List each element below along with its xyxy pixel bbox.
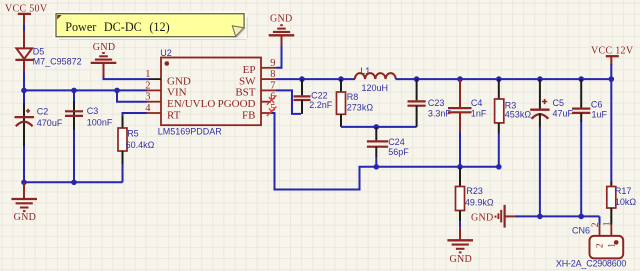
node junction VIN rail / EN branch — [114, 88, 120, 94]
node junction VIN rail / D5 / C2 — [21, 88, 27, 94]
node junction SW / C22 — [299, 76, 305, 82]
node junction GND rail / C2 / ground — [21, 180, 27, 186]
svg-text:RT: RT — [167, 109, 181, 121]
svg-text:BST: BST — [235, 87, 255, 99]
wire GND symbol to U2 pin 1 — [104, 77, 150, 80]
node junction R8/C23 wire with C24 — [374, 124, 380, 130]
svg-text:C24: C24 — [388, 137, 405, 147]
svg-text:1nF: 1nF — [471, 108, 487, 118]
ground symbol bottom-left — [11, 182, 37, 223]
wire VOUT rail L1 to VCC12V corner — [396, 78, 612, 80]
wire output GND rail — [516, 215, 600, 217]
svg-text:7: 7 — [270, 80, 275, 91]
node junction VOUT / C5 — [537, 76, 543, 82]
wire EN/UVLO branch — [117, 90, 147, 101]
U2 pin 8 SW — [239, 69, 276, 87]
svg-text:2: 2 — [596, 243, 606, 248]
wire FB net: pin 5 down, across, up to FB rail — [272, 113, 499, 190]
svg-text:EP: EP — [243, 64, 256, 76]
node junction VOUT / C4 — [457, 76, 463, 82]
svg-text:LM5169PDDAR: LM5169PDDAR — [158, 127, 223, 137]
svg-text:EN/UVLO: EN/UVLO — [167, 98, 215, 110]
svg-text:SW: SW — [239, 75, 256, 87]
svg-text:GND: GND — [14, 212, 37, 223]
resistor R5 60.4k — [118, 113, 155, 182]
capacitor C23 3.3nF — [408, 79, 452, 127]
power port VCC 12V — [591, 45, 634, 65]
svg-text:VIN: VIN — [167, 87, 187, 99]
node junction GND rail / C5 — [537, 214, 543, 220]
U2 pin 4 RT — [145, 103, 180, 121]
svg-text:3.3nF: 3.3nF — [428, 108, 452, 118]
diode D5 — [15, 31, 81, 71]
svg-text:1: 1 — [603, 221, 613, 226]
svg-text:60.4kΩ: 60.4kΩ — [126, 140, 155, 150]
svg-text:470uF: 470uF — [37, 118, 63, 128]
svg-text:U2: U2 — [160, 48, 172, 58]
svg-text:C23: C23 — [428, 98, 445, 108]
svg-text:100nF: 100nF — [87, 117, 113, 127]
wire EP pin to ground — [276, 46, 282, 68]
svg-text:R17: R17 — [615, 186, 632, 196]
svg-text:273kΩ: 273kΩ — [347, 102, 374, 112]
svg-text:GND: GND — [93, 42, 116, 53]
svg-text:47uF: 47uF — [553, 108, 574, 118]
svg-text:C5: C5 — [553, 98, 565, 108]
U2 pin 6 PGOOD with no-ERC cross — [218, 92, 277, 110]
node junction VOUT / R3 — [496, 76, 502, 82]
IC U2 LM5169PDDAR body — [158, 48, 261, 137]
resistor R23 49.9k — [456, 168, 494, 222]
U2 pin 2 VIN — [145, 80, 186, 98]
svg-text:56pF: 56pF — [388, 147, 409, 157]
svg-text:10kΩ: 10kΩ — [615, 197, 637, 207]
svg-text:1uF: 1uF — [592, 109, 608, 119]
node junction FB rail / C24 — [374, 164, 380, 170]
U2 pin 3 EN/UVLO — [145, 92, 215, 110]
svg-text:49.9kΩ: 49.9kΩ — [465, 197, 494, 207]
svg-text:Power DC-DC (12): Power DC-DC (12) — [65, 20, 169, 34]
wire bottom GND rail (left) — [24, 181, 123, 183]
svg-text:VCC 12V: VCC 12V — [591, 45, 634, 56]
ground below R23 — [447, 221, 473, 265]
svg-text:453kΩ: 453kΩ — [505, 110, 532, 120]
node junction VOUT / VCC12V / R17 — [609, 76, 615, 82]
svg-text:9: 9 — [270, 58, 275, 69]
capacitor C3 100nF — [65, 90, 113, 182]
svg-text:GND: GND — [450, 254, 473, 265]
resistor R8 273k — [337, 79, 374, 127]
wire BST pin to C22 bottom — [276, 90, 301, 114]
power port VCC 50V — [5, 3, 48, 24]
wire D5 cathode down to GND rail — [23, 71, 25, 182]
note box "Power DC-DC (12)" — [55, 13, 247, 40]
wire VCC50V to D5 — [23, 24, 25, 31]
capacitor C24 56pF — [367, 127, 409, 167]
capacitor C2 (polarized 470uF) — [15, 103, 63, 146]
svg-text:8: 8 — [270, 69, 275, 80]
wire R8 bottom to C23 bottom — [341, 126, 417, 128]
connector CN6 XH-2A — [556, 221, 626, 268]
inductor L1 120uH — [355, 66, 396, 93]
svg-text:2: 2 — [145, 80, 150, 91]
U2 pin 5 FB with no-ERC cross — [242, 103, 276, 121]
svg-text:GND: GND — [471, 212, 494, 223]
svg-text:1: 1 — [145, 69, 150, 80]
svg-text:R8: R8 — [347, 92, 359, 102]
svg-text:C22: C22 — [311, 90, 328, 100]
node junction SW / R8 — [338, 76, 344, 82]
U2 pin 7 BST — [235, 80, 276, 98]
ground symbol above pin 9 EP — [269, 13, 295, 46]
node junction FB rail / C4 / R23 — [457, 164, 463, 170]
capacitor C4 1nF — [448, 79, 487, 167]
resistor R3 453k — [495, 79, 532, 167]
resistor R17 10k — [607, 79, 637, 224]
ground (sideways) output — [471, 205, 518, 228]
svg-text:2: 2 — [591, 222, 601, 227]
wire GND rail down to CN6 pin 2 — [599, 216, 601, 224]
wire VIN rail — [24, 89, 147, 91]
svg-text:120uH: 120uH — [362, 83, 389, 93]
svg-text:C3: C3 — [87, 106, 99, 116]
svg-text:C2: C2 — [37, 106, 49, 116]
svg-text:C6: C6 — [591, 99, 603, 109]
svg-text:GND: GND — [270, 13, 293, 24]
svg-text:FB: FB — [242, 109, 255, 121]
node junction VIN rail / C3 — [71, 88, 77, 94]
svg-text:R5: R5 — [127, 128, 139, 138]
svg-text:R23: R23 — [466, 186, 483, 196]
svg-text:M7_C95872: M7_C95872 — [33, 56, 82, 66]
capacitor C22 2.2nF bootstrap — [294, 79, 333, 114]
node junction VOUT / C6 — [578, 76, 584, 82]
svg-text:2.2nF: 2.2nF — [309, 100, 333, 110]
wire SW net pin 8 to L1 — [276, 78, 355, 80]
svg-text:D5: D5 — [33, 46, 45, 56]
svg-text:3: 3 — [145, 92, 150, 103]
node junction GND rail / C3 — [71, 180, 77, 186]
svg-text:GND: GND — [167, 75, 191, 87]
capacitor C5 polarized 47uF — [530, 79, 573, 216]
U2 pin 1 GND — [145, 69, 191, 87]
svg-text:VCC 50V: VCC 50V — [5, 3, 48, 14]
node junction GND rail / C6 — [578, 214, 584, 220]
svg-text:4: 4 — [145, 103, 151, 114]
svg-text:CN6: CN6 — [572, 226, 590, 236]
node junction VOUT / C23 — [414, 76, 420, 82]
svg-text:C4: C4 — [471, 98, 483, 108]
svg-text:XH-2A_C2908600: XH-2A_C2908600 — [556, 259, 626, 269]
ground symbol above U2 pin 1 — [91, 42, 117, 78]
svg-text:PGOOD: PGOOD — [218, 98, 256, 110]
wire VCC12V to VOUT rail — [610, 64, 612, 79]
U2 pin 9 EP — [243, 58, 276, 76]
capacitor C6 1uF — [572, 79, 608, 216]
node junction FB rail / R3 — [496, 164, 502, 170]
